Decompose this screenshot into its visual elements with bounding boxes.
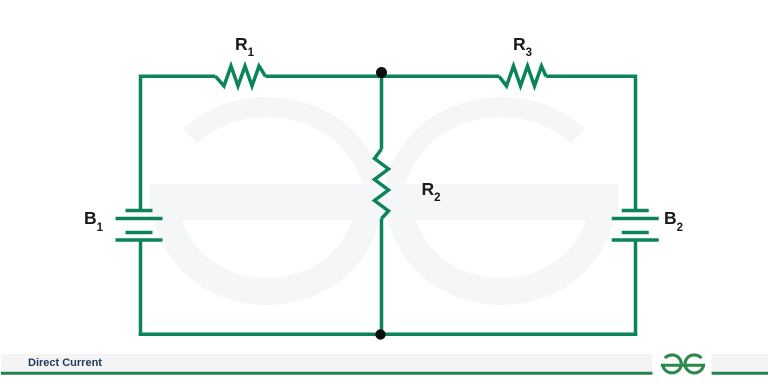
node top junction (376, 67, 387, 78)
footer caption (28, 357, 102, 369)
wire bottom (139, 333, 638, 337)
wire top-middle segment (266, 75, 500, 79)
logo GeeksforGeeks right glyph (684, 355, 705, 373)
label B2 (664, 210, 683, 228)
wire right side upper (634, 75, 638, 211)
wire left side upper (139, 75, 143, 211)
label B1 (84, 210, 103, 228)
wire right side lower (634, 240, 638, 336)
label R3 (513, 36, 532, 54)
label R2 (422, 181, 441, 199)
label R1 (235, 36, 254, 54)
wire middle lower (380, 219, 384, 335)
footer bar left (1, 354, 653, 372)
resistor R3 (499, 66, 546, 86)
battery B2 (612, 211, 659, 241)
battery B1 (116, 211, 163, 241)
watermark left glyph (150, 107, 384, 291)
logo GeeksforGeeks left glyph (661, 355, 684, 373)
wire top-left segment (141, 75, 216, 79)
wire top-right segment (546, 75, 636, 79)
wire left side lower (139, 240, 143, 336)
node bottom junction (375, 329, 385, 339)
footer bar right (712, 354, 768, 372)
resistor R2 (375, 149, 389, 219)
resistor R1 (216, 66, 266, 86)
wire middle upper (380, 76, 384, 149)
watermark right glyph (384, 107, 618, 291)
